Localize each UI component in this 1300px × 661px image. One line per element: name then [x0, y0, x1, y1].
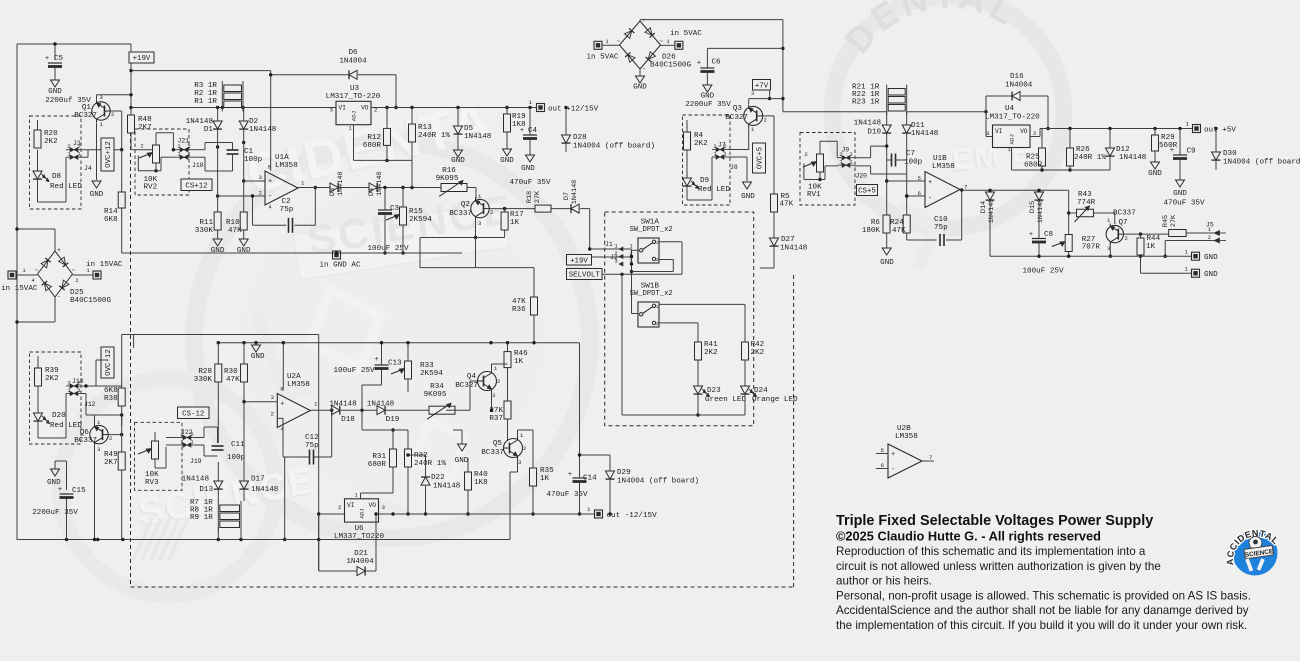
resistor R48: [128, 115, 153, 133]
svg-text:R19: R19: [512, 113, 526, 121]
svg-text:LM358: LM358: [932, 163, 955, 171]
svg-text:2: 2: [259, 190, 263, 197]
svg-text:VI: VI: [347, 502, 355, 509]
svg-text:4: 4: [31, 278, 34, 284]
wire: [686, 150, 688, 178]
diode D21: [346, 512, 377, 575]
svg-text:D7: D7: [563, 192, 571, 200]
svg-text:CS+5: CS+5: [858, 188, 876, 196]
wire out rail: [131, 106, 336, 109]
svg-text:BC327: BC327: [455, 382, 478, 390]
svg-text:C5: C5: [54, 55, 64, 63]
svg-text:3: 3: [97, 446, 100, 453]
connector in 15VAC right: [73, 261, 123, 284]
wire: [768, 90, 771, 100]
resistor R40: [465, 458, 489, 516]
ground: [251, 343, 265, 361]
svg-text:1N4148: 1N4148: [1037, 199, 1045, 223]
resistor R42: [742, 304, 765, 386]
resistor R6: [862, 179, 890, 248]
svg-text:SW_DPDT_x2: SW_DPDT_x2: [630, 226, 673, 234]
connector in 15VAC left: [1, 267, 38, 293]
wire: [746, 157, 748, 181]
wire: [37, 386, 39, 413]
ground: [633, 69, 647, 92]
svg-text:1N4148: 1N4148: [337, 172, 345, 196]
svg-text:2: 2: [614, 250, 617, 257]
diode D14: [980, 192, 996, 256]
svg-text:D9: D9: [700, 177, 710, 185]
svg-text:D15: D15: [1029, 201, 1037, 213]
svg-text:OVC-12: OVC-12: [105, 349, 113, 376]
svg-text:2: 2: [849, 151, 853, 158]
diode D17: [240, 402, 279, 501]
connector J9/J20: [838, 147, 867, 180]
wire: [492, 364, 508, 372]
svg-text:J3: J3: [73, 140, 81, 147]
svg-text:Q2: Q2: [461, 201, 471, 209]
svg-text:in 5VAC: in 5VAC: [587, 54, 619, 62]
trimmer R27: [1052, 235, 1101, 257]
capacitor C11: [212, 441, 246, 462]
svg-text:GND: GND: [455, 457, 469, 465]
resistor R29: [1152, 129, 1178, 163]
ground: [45, 80, 91, 105]
svg-text:9K095: 9K095: [436, 175, 459, 183]
ground: [1163, 180, 1204, 208]
wire +5V sense rail: [783, 110, 988, 113]
svg-text:J22: J22: [181, 429, 193, 436]
svg-text:+19V: +19V: [133, 55, 151, 63]
resistor R32: [405, 430, 447, 516]
diode D13: [182, 462, 223, 501]
svg-text:circuit is not allowed unless: circuit is not allowed unless written au…: [836, 560, 1161, 573]
wire: [82, 394, 123, 437]
svg-text:1: 1: [1185, 266, 1189, 273]
svg-text:Q6: Q6: [80, 429, 90, 437]
svg-text:1: 1: [656, 240, 659, 246]
wire: [96, 360, 108, 386]
capacitor C6: [697, 48, 783, 85]
wire: [518, 430, 534, 437]
svg-text:3: 3: [656, 321, 659, 327]
svg-text:6: 6: [918, 190, 922, 197]
wire: [1164, 241, 1215, 258]
LED D23: [694, 386, 747, 415]
wire ADJ: [354, 125, 413, 162]
copyright: [836, 529, 1101, 544]
svg-text:R49: R49: [104, 451, 118, 459]
ground: [685, 85, 731, 109]
svg-text:+: +: [45, 55, 49, 63]
box LED driver 1: [30, 116, 82, 209]
resistor stack R7 R8 R9: [190, 499, 241, 540]
wire out rail: [379, 512, 595, 515]
svg-text:2: 2: [1125, 235, 1128, 242]
svg-text:1: 1: [723, 151, 727, 158]
svg-text:D20: D20: [52, 412, 66, 420]
svg-text:OVC+5: OVC+5: [757, 147, 765, 169]
diode D19: [367, 401, 429, 425]
svg-text:D19: D19: [386, 416, 400, 424]
diode D4: [368, 172, 441, 196]
svg-text:LM358: LM358: [895, 433, 918, 441]
svg-text:BC337: BC337: [481, 449, 504, 457]
transistor Q4: [455, 365, 500, 399]
wire rail: [122, 334, 319, 336]
resistor R30: [224, 343, 248, 402]
svg-text:Q4: Q4: [467, 373, 477, 381]
svg-text:+: +: [374, 356, 378, 364]
svg-text:R12: R12: [367, 134, 381, 142]
svg-text:D1: D1: [204, 126, 214, 134]
wire: [270, 71, 272, 171]
connector out +12/15V: [529, 99, 599, 114]
svg-text:GND: GND: [48, 88, 62, 96]
svg-text:470uF 35V: 470uF 35V: [1163, 200, 1204, 208]
wire: [17, 43, 131, 45]
svg-text:GND: GND: [237, 247, 251, 255]
svg-text:J18: J18: [192, 162, 204, 169]
svg-text:LM317_TO-220: LM317_TO-220: [985, 114, 1040, 122]
svg-text:3: 3: [330, 106, 334, 113]
capacitor C15: [32, 486, 86, 540]
connector pins J1: [614, 243, 633, 267]
svg-text:1: 1: [190, 439, 194, 446]
connector GND 1: [1185, 249, 1219, 263]
wire: [318, 335, 320, 572]
node CS+12: [181, 179, 212, 191]
wire: [37, 150, 39, 171]
capacitor C5: [45, 55, 64, 80]
svg-text:+: +: [928, 179, 932, 187]
svg-text:R42: R42: [751, 341, 765, 349]
svg-text:3: 3: [751, 90, 754, 97]
wire: [659, 303, 745, 305]
svg-text:1K: 1K: [540, 475, 550, 483]
transistor Q5: [481, 432, 526, 466]
svg-text:D11: D11: [911, 122, 925, 130]
wire: [166, 438, 179, 446]
svg-text:47K: 47K: [228, 227, 242, 235]
svg-text:+: +: [280, 401, 284, 409]
svg-text:10K: 10K: [145, 471, 159, 479]
svg-text:2K2: 2K2: [704, 349, 718, 357]
transistor Q7: [1106, 210, 1136, 253]
wire +5V rail: [1030, 127, 1218, 137]
svg-text:~: ~: [660, 38, 664, 45]
wire: [659, 322, 698, 324]
LED D9: [683, 177, 731, 194]
wire: [317, 512, 345, 515]
connector J5: [1206, 222, 1226, 244]
node OVC+5: [753, 143, 766, 173]
svg-text:2: 2: [497, 378, 500, 385]
resistor R35: [530, 430, 555, 516]
wire bottom rail: [122, 252, 462, 254]
svg-text:2K7: 2K7: [104, 459, 118, 467]
wire common bus: [630, 249, 638, 314]
svg-text:U1A: U1A: [275, 154, 289, 162]
svg-text:2K2: 2K2: [45, 375, 59, 383]
svg-text:R35: R35: [540, 467, 554, 475]
capacitor C1: [227, 143, 263, 172]
svg-text:1N4004: 1N4004: [339, 58, 367, 66]
svg-text:R13: R13: [418, 124, 432, 132]
regulator U4: [985, 105, 1040, 153]
svg-text:1: 1: [67, 151, 71, 158]
svg-text:1: 1: [713, 151, 717, 158]
svg-text:R34: R34: [430, 383, 444, 391]
svg-text:3: 3: [986, 130, 990, 137]
svg-text:in 5VAC: in 5VAC: [670, 30, 702, 38]
connector J22/J19: [179, 429, 202, 465]
svg-text:SELVOLT: SELVOLT: [569, 272, 601, 280]
svg-text:5: 5: [918, 175, 922, 182]
svg-text:J8: J8: [730, 164, 738, 171]
svg-text:5: 5: [881, 447, 885, 454]
diode D29: [578, 453, 699, 515]
svg-text:240R 1%: 240R 1%: [1074, 154, 1106, 162]
svg-text:1K8: 1K8: [474, 479, 488, 487]
box selector: [605, 212, 754, 426]
svg-text:D24: D24: [754, 387, 768, 395]
svg-text:1K: 1K: [514, 358, 524, 366]
wire: [687, 157, 712, 200]
wire: [1124, 232, 1169, 235]
svg-text:GND: GND: [741, 193, 755, 201]
svg-text:D4: D4: [368, 188, 376, 196]
svg-text:GND: GND: [1204, 254, 1218, 262]
svg-text:R44: R44: [1147, 235, 1161, 243]
svg-text:BC337: BC337: [1113, 210, 1136, 218]
svg-text:+7V: +7V: [755, 82, 769, 90]
svg-text:1K: 1K: [510, 219, 520, 227]
wire: [960, 189, 962, 191]
regulator U3: [326, 85, 381, 132]
wire: [311, 409, 332, 411]
svg-text:R46: R46: [514, 350, 528, 358]
svg-text:VO: VO: [361, 104, 369, 111]
svg-text:C14: C14: [583, 475, 597, 483]
capacitor C4: [520, 108, 538, 156]
svg-text:2K594: 2K594: [420, 370, 443, 378]
resistor R38: [104, 335, 125, 427]
svg-text:Reproduction of this schematic: Reproduction of this schematic and its i…: [836, 545, 1146, 558]
svg-text:2: 2: [67, 143, 71, 150]
svg-text:-: -: [642, 65, 646, 72]
wire gnd rail 1: [990, 255, 1192, 258]
svg-text:1N4148: 1N4148: [464, 133, 492, 141]
svg-text:1N4148: 1N4148: [182, 476, 210, 484]
svg-text:2: 2: [338, 504, 342, 511]
wire: [95, 413, 124, 423]
svg-text:2K2: 2K2: [44, 138, 58, 146]
wire: [38, 157, 67, 202]
svg-text:J9: J9: [842, 147, 850, 154]
trimmer RV3: [138, 432, 166, 487]
svg-text:GND: GND: [1173, 190, 1187, 198]
switch SW1A: [630, 219, 673, 264]
svg-text:2: 2: [523, 445, 526, 452]
svg-text:D29: D29: [617, 469, 631, 477]
svg-text:C7: C7: [906, 150, 915, 158]
svg-text:GND: GND: [1148, 170, 1162, 178]
svg-text:-: -: [928, 195, 932, 203]
svg-text:C6: C6: [712, 59, 722, 67]
svg-text:out -12/15V: out -12/15V: [607, 512, 658, 520]
svg-text:U2B: U2B: [897, 425, 911, 433]
svg-text:R16: R16: [442, 167, 456, 175]
svg-text:J19: J19: [190, 458, 202, 465]
svg-text:BC337: BC337: [449, 210, 472, 218]
wire: [474, 218, 477, 239]
license text: [836, 545, 1251, 632]
diode D16: [986, 73, 1050, 137]
svg-text:D10: D10: [867, 129, 881, 137]
svg-text:4: 4: [268, 205, 271, 211]
svg-text:D12: D12: [1116, 146, 1130, 154]
svg-text:ADJ: ADJ: [359, 508, 366, 518]
resistor R49: [104, 451, 125, 540]
svg-text:2: 2: [111, 111, 114, 118]
svg-text:1: 1: [301, 180, 305, 187]
svg-text:BC327: BC327: [725, 114, 748, 122]
svg-text:RV3: RV3: [145, 479, 159, 487]
svg-text:R24: R24: [890, 219, 904, 227]
wire: [1067, 190, 1070, 234]
svg-text:GND: GND: [451, 157, 465, 165]
svg-text:6: 6: [881, 462, 885, 469]
resistor R17: [501, 209, 524, 238]
connector J13/J12: [66, 378, 96, 408]
svg-text:47K: 47K: [512, 298, 526, 306]
diode D18: [329, 401, 377, 425]
svg-text:SW_DPDT_x2: SW_DPDT_x2: [630, 290, 673, 298]
svg-text:1: 1: [180, 439, 184, 446]
svg-text:2200uF 35V: 2200uF 35V: [32, 509, 78, 517]
wire: [632, 260, 674, 272]
svg-text:1N4148: 1N4148: [988, 199, 996, 223]
svg-text:470uF 35V: 470uF 35V: [509, 179, 550, 187]
svg-text:9K095: 9K095: [424, 391, 447, 399]
node CS+5: [857, 185, 878, 196]
wire: [602, 241, 622, 274]
svg-text:GND: GND: [633, 84, 647, 92]
diode D28: [562, 106, 656, 152]
svg-text:1: 1: [187, 151, 191, 158]
svg-text:1: 1: [77, 387, 81, 394]
diode D2: [239, 108, 277, 145]
wire +19V rail: [131, 70, 271, 72]
svg-text:D6: D6: [348, 49, 358, 57]
svg-text:1: 1: [839, 159, 843, 166]
svg-text:2: 2: [1208, 234, 1211, 241]
svg-text:BC337: BC337: [74, 437, 97, 445]
svg-text:R1 1R: R1 1R: [194, 98, 217, 106]
svg-text:3: 3: [614, 258, 617, 265]
svg-text:100uF 25V: 100uF 25V: [333, 367, 374, 375]
connector in 5VAC right: [661, 30, 703, 49]
LED D20: [34, 412, 83, 430]
svg-text:1N4148: 1N4148: [367, 401, 395, 409]
svg-text:3: 3: [492, 392, 495, 399]
svg-text:GND: GND: [880, 259, 894, 267]
op-amp U1B: [918, 155, 968, 208]
svg-text:2: 2: [140, 143, 143, 150]
wire: [962, 189, 1069, 192]
svg-text:1N4148: 1N4148: [433, 483, 461, 491]
svg-text:in GND AC: in GND AC: [319, 262, 360, 270]
resistor R10: [226, 143, 247, 240]
svg-text:1: 1: [67, 387, 71, 394]
svg-text:8: 8: [268, 165, 271, 171]
box LED driver 2: [30, 352, 82, 444]
resistor R19: [504, 108, 527, 150]
svg-text:1N4004 (off board): 1N4004 (off board): [1223, 159, 1300, 167]
diode D30: [1212, 129, 1300, 171]
svg-text:R15: R15: [409, 208, 423, 216]
svg-text:47K: 47K: [226, 376, 240, 384]
wire: [728, 150, 749, 158]
svg-text:3: 3: [382, 504, 386, 511]
connector out -12/15V: [587, 506, 657, 520]
resistor R26: [1067, 129, 1107, 171]
svg-text:3: 3: [478, 220, 481, 227]
wire: [130, 133, 132, 150]
svg-text:D5: D5: [464, 125, 474, 133]
capacitor C14: [546, 343, 597, 516]
node +7V: [753, 80, 771, 91]
svg-text:R17: R17: [510, 211, 524, 219]
wire: [17, 538, 511, 541]
svg-text:R10: R10: [226, 219, 240, 227]
svg-text:C15: C15: [72, 487, 86, 495]
wire: [121, 415, 123, 452]
svg-text:75p: 75p: [280, 206, 294, 214]
wire: [82, 148, 123, 151]
op-amp U1A: [259, 154, 305, 211]
wire: [620, 273, 682, 276]
ground: [1148, 162, 1162, 178]
wire: [749, 99, 783, 194]
svg-text:U4: U4: [1005, 105, 1015, 113]
svg-text:R29: R29: [1161, 134, 1175, 142]
wire: [773, 212, 775, 238]
svg-text:2K7: 2K7: [138, 124, 152, 132]
svg-text:1N4148: 1N4148: [1119, 154, 1147, 162]
svg-text:330K: 330K: [194, 376, 213, 384]
wire: [138, 156, 161, 173]
svg-text:LM358: LM358: [275, 162, 298, 170]
capacitor C8: [1022, 201, 1063, 276]
svg-text:1N4148: 1N4148: [376, 172, 384, 196]
svg-text:C12: C12: [305, 434, 319, 442]
svg-text:R2 1R: R2 1R: [194, 90, 217, 98]
svg-text:R45: R45: [1162, 215, 1170, 227]
svg-text:D25: D25: [70, 289, 84, 297]
wire: [82, 384, 122, 387]
svg-text:GND: GND: [211, 247, 225, 255]
diode D5: [454, 108, 492, 151]
ground: [237, 239, 251, 255]
wire: [53, 42, 56, 60]
svg-text:J4: J4: [84, 165, 92, 172]
node SELVOLT: [567, 269, 603, 280]
svg-text:2: 2: [713, 143, 717, 150]
svg-text:1N4148: 1N4148: [571, 180, 579, 204]
svg-text:C9: C9: [1187, 148, 1197, 156]
